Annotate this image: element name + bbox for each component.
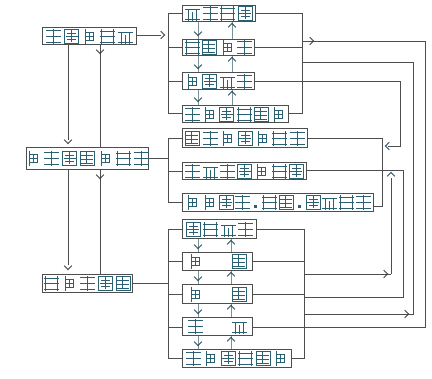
arrow 分类选择 down to 品质分析 — [198, 22, 199, 39]
wire 基本原料的味國 right to x403 — [307, 170, 404, 171]
wire 性能分析 feedback down x400 — [400, 81, 401, 147]
box 原料的选择 — [42, 27, 137, 45]
arrow 综合对比评价 up to 性能分析 — [232, 90, 233, 105]
arrow 生产 up to 调制 — [231, 304, 232, 317]
arrow up into 基本原料 wire — [386, 171, 394, 179]
wire 试制 right — [253, 261, 304, 262]
wire 影响味感的因素 right — [308, 138, 382, 139]
wire 性能分析 right — [255, 81, 401, 82]
box 综合分析评价 — [182, 349, 292, 368]
wire 确定风味 right — [257, 229, 304, 230]
arrow right marker on feedback wire — [306, 36, 314, 44]
wire vertical x403 — [403, 170, 404, 297]
arrow 品质分析 up to 分类选择 — [232, 22, 233, 39]
box 确定风味 — [182, 219, 257, 239]
wire 品质分析 right — [255, 47, 302, 48]
box 影响味感的因素 — [182, 128, 308, 148]
wire vertical x382 — [382, 138, 383, 207]
arrow down marker below 调味原理的运用 — [95, 171, 103, 179]
arrow right toward x393 — [380, 269, 388, 277]
box 性能分析 — [182, 72, 255, 90]
bracket middle group vertical — [168, 138, 169, 203]
wire 调味原理的运用 down-right — [100, 170, 101, 274]
wire 综合分析评价 right — [292, 358, 304, 359]
arrow 试制 up to 确定风味 — [231, 239, 232, 252]
box 品质分析 — [182, 39, 255, 56]
wire 原料的选择 to top bracket — [137, 35, 161, 36]
bracket stub 生产 — [168, 327, 182, 328]
wire stub into 味的相乘 right edge — [374, 206, 383, 207]
arrow 综合分析评价 up to 生产 — [231, 336, 232, 349]
wire 调制 right — [253, 294, 304, 295]
box 调制 — [182, 284, 253, 304]
wire 风味的确定 to bottom bracket — [133, 283, 169, 284]
arrow left into x382 — [384, 141, 392, 149]
wire 调味原理的运用 to middle bracket — [149, 158, 169, 159]
wire x302 to x413 — [302, 62, 413, 63]
wire feedback x302 to far right — [302, 41, 426, 42]
box 调味原理的运用 — [26, 147, 149, 170]
bracket stub 味的相乘对比相抵关系 — [168, 202, 182, 203]
box 风味的确定 — [42, 274, 133, 293]
wire 调味原理的运用 down-left — [68, 170, 69, 265]
node vertical x302 — [302, 13, 303, 114]
box 分类选择 — [182, 5, 256, 22]
arrow down into 风味的确定 — [63, 262, 71, 270]
bracket stub 综合分析评价 — [168, 358, 182, 359]
bracket stub 确定风味 — [168, 229, 182, 230]
box 试制 — [182, 252, 253, 271]
bracket stub 分类选择 — [168, 13, 182, 14]
bracket stub 综合对比评价 — [168, 113, 182, 114]
box 生产 — [182, 317, 253, 336]
bracket top group vertical — [168, 13, 169, 114]
wire 原料的选择 down-left — [68, 45, 69, 140]
arrow down marker below 原料的选择 — [95, 46, 103, 54]
arrow 调制 down to 生产 — [198, 304, 199, 317]
wire far right vertical x425 — [425, 41, 426, 328]
arrow down into 调味原理的运用 — [63, 136, 71, 144]
bracket bottom-right vertical x304 — [304, 229, 305, 359]
wire 生产 right — [253, 327, 304, 328]
arrow 生产 down to 综合分析评价 — [198, 336, 199, 349]
bracket stub 基本原料的味國 — [168, 171, 182, 172]
arrow right into x413 — [401, 309, 409, 317]
wire bottom bracket to x413 — [304, 314, 413, 315]
arrow 性能分析 down to 综合对比评价 — [198, 90, 199, 105]
wire vertical x393 up — [391, 178, 392, 274]
bracket stub 品质分析 — [168, 47, 182, 48]
arrow 性能分析 up to 品质分析 — [232, 56, 233, 72]
bracket stub 性能分析 — [168, 81, 182, 82]
wire bottom bracket to x393 — [304, 274, 391, 275]
wire 分类选择 right — [256, 13, 302, 14]
wire 综合对比评价 right — [289, 113, 302, 114]
wire bottom bracket to x403 — [304, 297, 404, 298]
bracket bottom group vertical — [168, 229, 169, 359]
box 味的相乘对比相抵关系 — [182, 193, 374, 212]
arrow 试制 down to 调制 — [198, 271, 199, 284]
box 综合对比评价 — [182, 105, 289, 123]
bracket stub 调制 — [168, 294, 182, 295]
bracket stub 试制 — [168, 261, 182, 262]
arrow 品质分析 down to 性能分析 — [198, 56, 199, 72]
arrow 调制 up to 试制 — [231, 271, 232, 284]
bracket stub 影响味感的因素 — [168, 138, 182, 139]
wire 性能分析 feedback left at y147 — [388, 146, 401, 147]
box 基本原料的味國 — [182, 162, 307, 180]
arrow right into top bracket — [157, 30, 165, 38]
wire vertical x413 — [413, 62, 414, 315]
wire x425 down to 生产 row — [304, 327, 426, 328]
wire 原料的选择 down-right — [100, 45, 101, 147]
arrow 确定风味 down to 试制 — [198, 239, 199, 252]
